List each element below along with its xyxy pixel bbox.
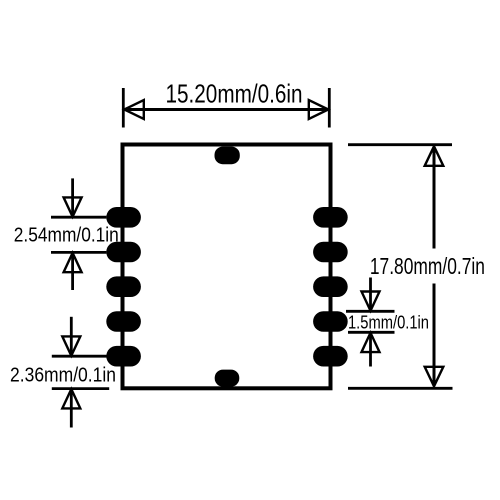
svg-text:17.80mm/0.7in: 17.80mm/0.7in: [370, 253, 485, 279]
svg-text:15.20mm/0.6in: 15.20mm/0.6in: [166, 79, 303, 109]
svg-text:2.36mm/0.1in: 2.36mm/0.1in: [10, 363, 116, 386]
svg-text:1.5mm/0.1in: 1.5mm/0.1in: [348, 312, 429, 333]
svg-text:2.54mm/0.1in: 2.54mm/0.1in: [14, 224, 119, 247]
